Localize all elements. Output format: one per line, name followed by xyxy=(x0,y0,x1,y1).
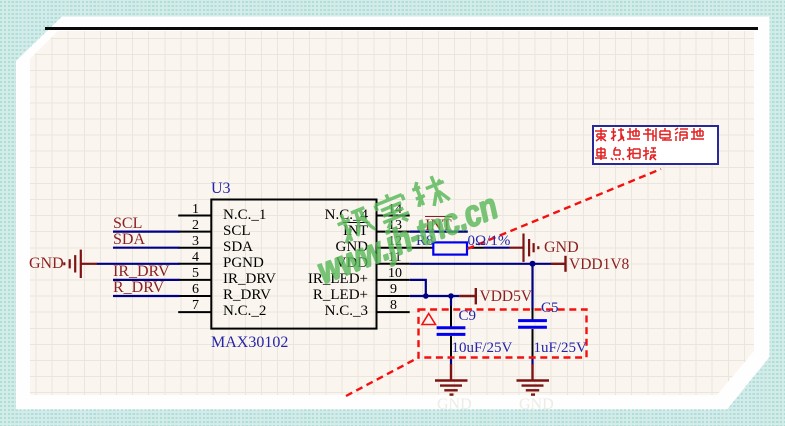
ground symbol under C5 xyxy=(517,364,550,395)
pin numbers left xyxy=(189,203,199,217)
wire R_LED pin9 xyxy=(410,295,460,297)
capacitor C5 xyxy=(518,308,547,357)
pin numbers right xyxy=(388,203,402,217)
value 10uF/25V xyxy=(452,341,513,356)
resistor R8 body xyxy=(433,242,467,254)
pin 5 stub xyxy=(178,279,211,281)
power text VDD5V xyxy=(480,289,533,305)
net label IR_DRV xyxy=(113,264,170,280)
red leader line lower left xyxy=(346,358,419,397)
junction pin10/pin9 xyxy=(423,293,429,299)
wire SDA pin3 xyxy=(113,247,180,249)
pin 11 stub xyxy=(377,263,410,265)
red leader line to note box xyxy=(468,169,662,249)
wire R_DRV pin6 xyxy=(113,295,180,297)
net label R_DRV xyxy=(113,280,164,296)
wire IR_LED pin10 jog xyxy=(410,280,426,296)
wire C5 lower xyxy=(531,357,533,365)
pin 1 stub xyxy=(178,215,211,217)
ghost GND text under C5 xyxy=(519,396,554,414)
value 1uF/25V xyxy=(534,341,587,356)
power port VDD5V xyxy=(459,288,476,304)
power text GND right xyxy=(544,240,579,256)
wire GND pin4 xyxy=(97,263,180,265)
power text VDD1V8 xyxy=(569,257,629,273)
value 0ohm 1% xyxy=(468,234,511,249)
resistor R1 right lead xyxy=(467,247,484,249)
pin names left column xyxy=(223,208,266,223)
junction C9 tap xyxy=(448,293,454,299)
red dashed highlight box around caps xyxy=(419,310,587,358)
wire IR_DRV pin5 xyxy=(113,279,180,281)
capacitor C9 xyxy=(437,306,466,357)
power port VDD1V8 xyxy=(551,256,566,272)
pin 6 stub xyxy=(178,295,211,297)
wire SCL pin2 xyxy=(113,231,180,233)
pin 2 stub xyxy=(178,231,211,233)
pin 12 stub + resistor lead xyxy=(377,247,434,249)
pin 4 stub xyxy=(178,263,211,265)
pin 7 stub xyxy=(178,311,211,313)
designator C9 xyxy=(459,309,477,324)
wire C9 drop xyxy=(450,296,452,306)
watermark url text xyxy=(312,188,502,291)
wire INT pin13 xyxy=(410,231,468,233)
pin names right column xyxy=(288,208,368,223)
red note box: analog/power ground single point xyxy=(592,125,719,166)
beige grid sheet xyxy=(30,31,754,395)
junction C5 tap xyxy=(530,261,536,267)
note text line2 fake hanzi xyxy=(595,147,656,160)
red warning triangle xyxy=(422,314,436,325)
designator U3 xyxy=(211,181,231,196)
pin 13 stub xyxy=(377,231,410,233)
designator C5 xyxy=(541,301,559,316)
thick black top border line xyxy=(45,27,758,30)
wire C9 lower xyxy=(450,357,452,365)
ghost GND text under C9 xyxy=(437,396,472,414)
ground symbol under C9 xyxy=(435,364,468,395)
pin 14 stub xyxy=(377,215,410,217)
net label INT with overbar xyxy=(425,216,452,234)
pin 9 stub xyxy=(377,295,410,297)
net label SCL xyxy=(113,216,142,232)
pin 10 stub xyxy=(377,279,410,281)
wire R8 to GND xyxy=(484,247,510,249)
pin 3 stub xyxy=(178,247,211,249)
wire C5 drop xyxy=(531,264,533,310)
watermark hanzi 极寒钛 xyxy=(336,174,468,258)
pin 8 stub xyxy=(377,311,410,313)
op-amp U1 : IC body MAX30102 U3 xyxy=(211,200,376,329)
designator R8 xyxy=(416,234,434,249)
power port GND left (sideways) xyxy=(64,250,97,278)
note text line1 fake hanzi xyxy=(595,128,704,141)
wire VDD pin11 xyxy=(410,263,551,265)
part number MAX30102 xyxy=(211,335,288,350)
net label SDA xyxy=(113,232,145,248)
power text GND left xyxy=(29,256,64,272)
power port GND right (sideways) xyxy=(510,234,539,262)
